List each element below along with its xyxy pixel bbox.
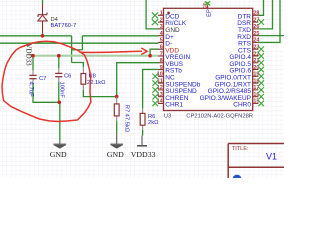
wire D- net	[0, 42, 159, 44]
svg-text:2: 2	[160, 17, 163, 23]
capacitor C6	[58, 68, 60, 82]
diode D4 BAT760-7	[38, 4, 47, 34]
svg-text:22: 22	[253, 51, 259, 57]
wire hop horizontal	[72, 49, 83, 51]
wire R8 bottom to divider node	[83, 90, 116, 97]
wire diode bottom stub	[42, 34, 44, 36]
pin numbers right	[253, 11, 259, 105]
svg-text:TITLE:: TITLE:	[232, 146, 249, 152]
red annotation loop	[2, 41, 91, 121]
svg-text:CP2102N-A02-GQFN28R: CP2102N-A02-GQFN28R	[186, 113, 253, 119]
pin 1 marker dot	[167, 12, 169, 14]
svg-text:VDD33: VDD33	[25, 44, 33, 67]
svg-text:28: 28	[253, 11, 259, 17]
wire VBUS pin8 to divider	[117, 63, 159, 97]
svg-text:9: 9	[160, 65, 163, 71]
red annotation arrow head	[141, 48, 147, 55]
pin numbers left	[157, 11, 163, 105]
svg-text:100nF: 100nF	[58, 82, 64, 99]
wire RSTb pin9 to R6	[143, 69, 159, 108]
svg-text:4.7uF: 4.7uF	[28, 82, 34, 98]
pin names right	[200, 13, 252, 108]
ground symbol left	[54, 140, 67, 148]
svg-text:CHR1: CHR1	[165, 102, 183, 109]
svg-text:5: 5	[160, 38, 163, 44]
svg-text:3: 3	[160, 24, 163, 30]
svg-text:V1: V1	[266, 151, 277, 161]
wire pin3 GND up to top edge	[146, 0, 158, 29]
wire D+ vertical jog / R8 feed	[71, 36, 73, 63]
svg-text:EP: EP	[207, 9, 213, 17]
wire gnd drop below caps	[59, 102, 61, 140]
resistor R6	[142, 108, 144, 129]
svg-text:VDD33: VDD33	[131, 150, 156, 159]
svg-text:2kΩ: 2kΩ	[148, 120, 159, 126]
wire C7 top	[32, 56, 34, 71]
svg-text:8: 8	[160, 58, 163, 64]
wire D+ to pin 4	[82, 35, 158, 37]
svg-text:11: 11	[157, 78, 163, 84]
ground symbol right	[110, 134, 123, 148]
wire TXD pin26 up	[258, 0, 272, 29]
svg-text:25: 25	[253, 31, 259, 37]
no-connect X marks left pins 1,2,10,11,12,13,14	[152, 12, 158, 106]
wire D+ net left segment	[0, 35, 72, 37]
svg-text:4: 4	[160, 31, 163, 37]
wire R8 top link	[72, 63, 84, 68]
no-connect X mark EP pin 29	[205, 1, 210, 5]
svg-text:17: 17	[253, 85, 259, 91]
svg-text:27: 27	[253, 17, 259, 23]
wire hop up vertical	[81, 36, 83, 50]
svg-text:26: 26	[253, 24, 259, 30]
svg-text:1: 1	[160, 11, 163, 17]
svg-text:16: 16	[253, 92, 259, 98]
svg-text:C7: C7	[39, 76, 46, 82]
resistor R8	[82, 67, 84, 90]
IC pin stubs left	[158, 15, 164, 103]
no-connect X marks right pins 27,23..15	[258, 19, 264, 106]
svg-text:24: 24	[253, 38, 259, 44]
svg-text:GND: GND	[50, 150, 67, 159]
wire RXD pin25 right	[258, 35, 284, 37]
svg-text:GND: GND	[107, 150, 124, 159]
svg-text:R7: R7	[123, 105, 129, 112]
power symbol VDD33	[137, 136, 147, 146]
pin EP stub	[207, 5, 209, 9]
red annotation arrow tail	[80, 51, 143, 52]
background grid	[0, 0, 284, 178]
svg-text:BAT760-7: BAT760-7	[51, 23, 77, 29]
wire VDD33 rail (highlighted pale)	[30, 55, 159, 57]
svg-text:C6: C6	[64, 74, 71, 80]
wire diode top stub	[42, 0, 44, 4]
svg-text:23: 23	[253, 45, 259, 51]
wire pin6 VDD down to rail	[150, 49, 158, 56]
svg-text:U3: U3	[164, 113, 171, 119]
svg-text:19: 19	[253, 72, 259, 78]
wire RTS pin24 up	[258, 0, 280, 42]
wire R7 bottom to gnd	[116, 121, 118, 134]
pin names left	[165, 13, 200, 108]
capacitor C7	[32, 70, 34, 84]
wire C7 bottom to gnd rail	[33, 84, 60, 103]
IC pin stubs right	[253, 15, 259, 103]
junction node dots	[31, 34, 152, 104]
title block frame	[228, 144, 284, 179]
title block logo dot	[233, 175, 242, 184]
resistor R7	[116, 97, 118, 122]
svg-text:18: 18	[253, 78, 259, 84]
svg-text:CHR0: CHR0	[233, 102, 251, 109]
wire R6 bottom to vdd33	[142, 130, 144, 136]
svg-text:47.5kΩ: 47.5kΩ	[123, 114, 129, 133]
wire DTR pin28 up	[258, 0, 263, 15]
svg-text:7: 7	[160, 51, 163, 57]
wire C6 bottom	[58, 82, 60, 102]
wire C6 top	[58, 56, 60, 69]
svg-text:21: 21	[253, 58, 259, 64]
svg-text:6: 6	[160, 45, 163, 51]
IC U3 CP2102N body	[164, 8, 253, 110]
